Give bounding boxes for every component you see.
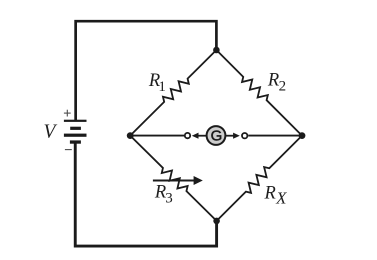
battery minus sign	[65, 149, 72, 151]
resistor R2	[216, 50, 302, 136]
resistor R3 (variable)	[130, 136, 216, 221]
resistor R1	[130, 50, 216, 136]
wire battery to bottom node	[75, 143, 216, 246]
node top	[213, 47, 220, 54]
resistor RX	[217, 136, 302, 221]
wire left node to left terminal	[130, 135, 184, 137]
node left	[127, 132, 134, 139]
battery plus sign	[64, 110, 71, 117]
R3 wiper arrow	[153, 180, 195, 182]
node right	[299, 132, 306, 139]
svg-text:V: V	[44, 122, 58, 143]
open terminal right	[242, 133, 247, 138]
battery V	[64, 120, 87, 144]
node bottom	[213, 218, 220, 225]
left arrow from G	[198, 135, 211, 137]
svg-text:G: G	[211, 128, 223, 145]
open terminal left	[185, 133, 190, 138]
galvanometer G	[207, 126, 226, 145]
wire right terminal to right node	[248, 135, 302, 137]
wire battery to top node	[76, 21, 217, 120]
right arrow from G	[222, 135, 234, 137]
